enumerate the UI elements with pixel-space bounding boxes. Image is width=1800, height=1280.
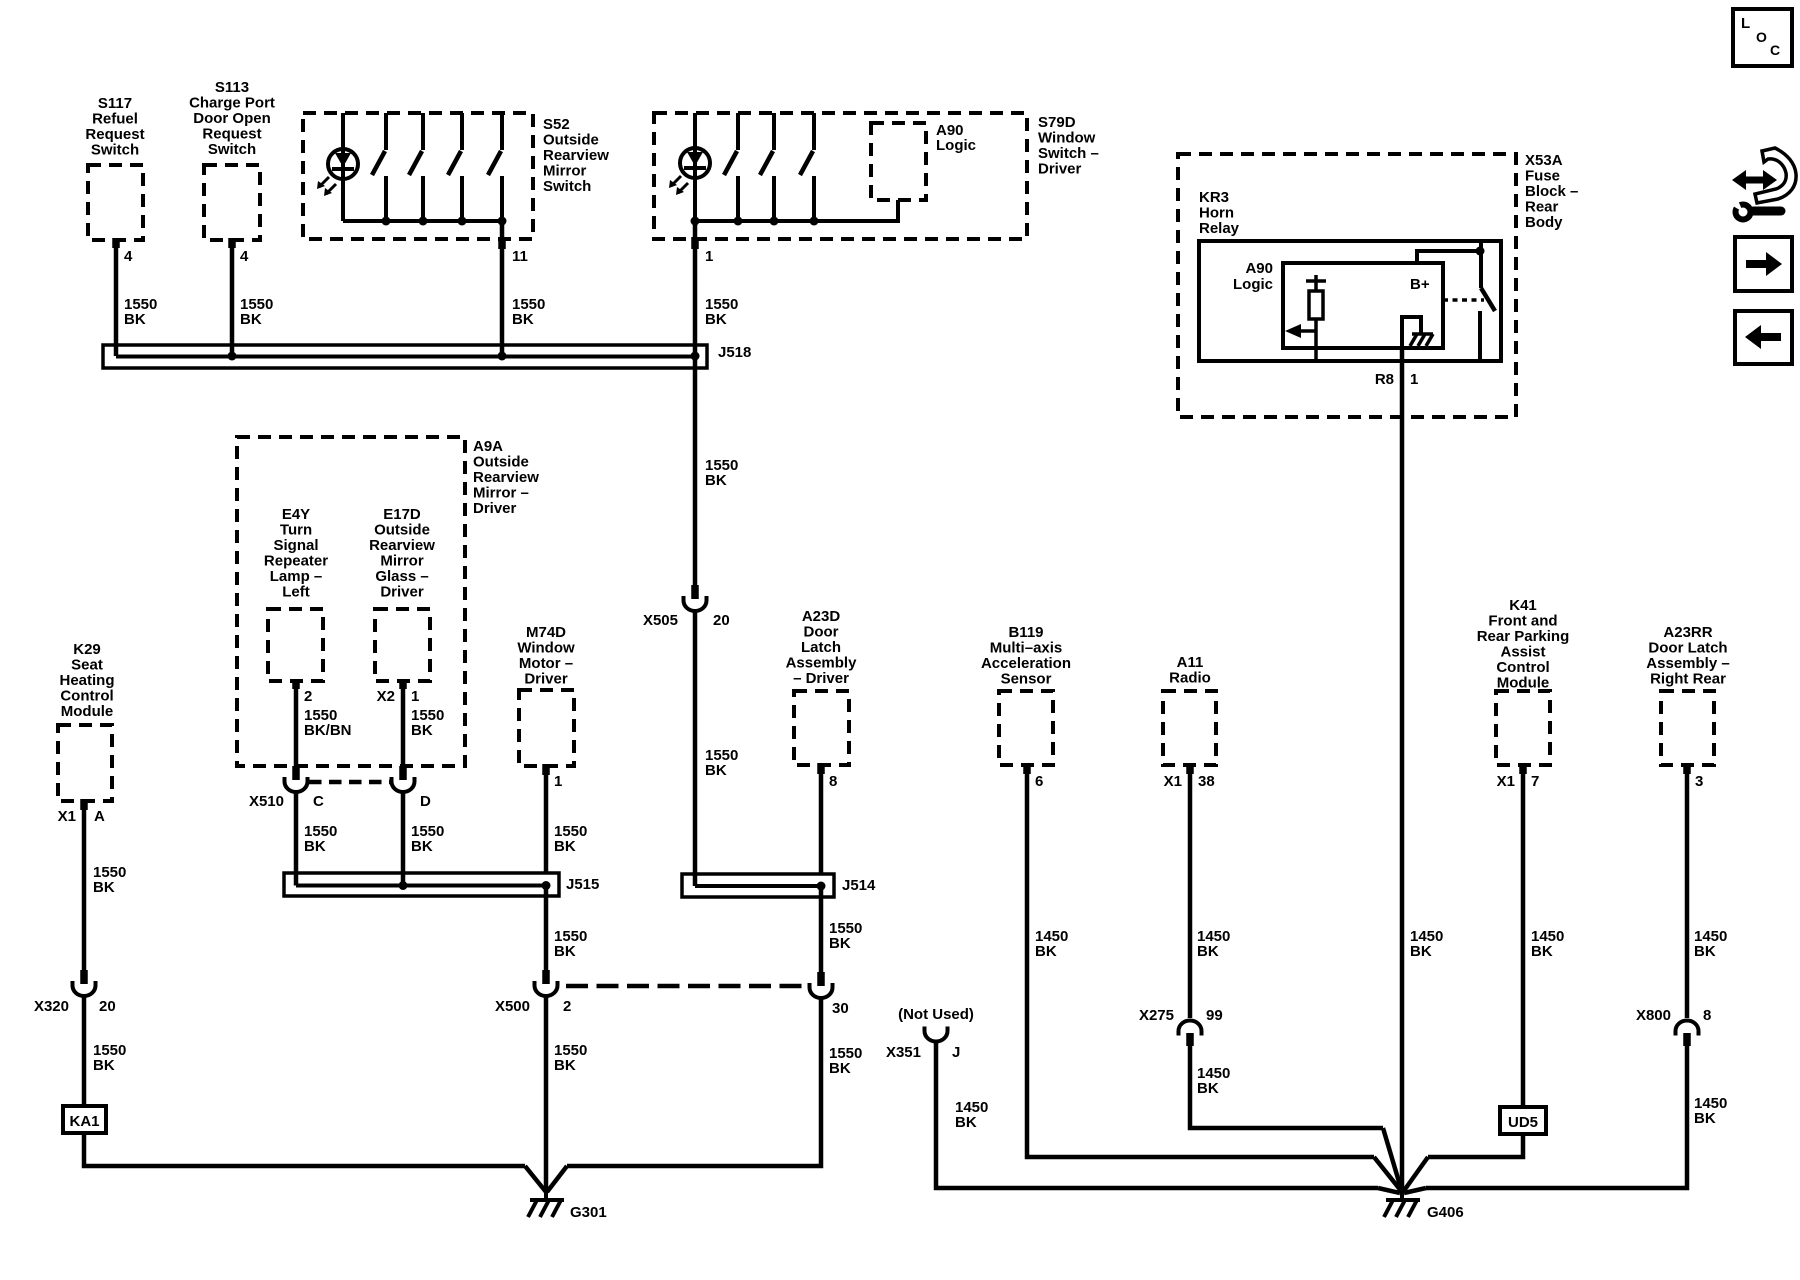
svg-text:A: A (94, 808, 105, 825)
svg-text:38: 38 (1198, 773, 1215, 790)
svg-text:BK: BK (93, 1057, 115, 1074)
svg-text:A11: A11 (1177, 654, 1204, 671)
svg-text:J515: J515 (566, 876, 599, 893)
svg-text:99: 99 (1206, 1007, 1223, 1024)
svg-text:Horn: Horn (1199, 205, 1234, 222)
svg-text:BK: BK (1035, 943, 1057, 960)
svg-text:C: C (313, 793, 324, 810)
svg-text:Window: Window (1038, 130, 1096, 147)
svg-text:A90: A90 (1245, 260, 1273, 277)
svg-text:X53A: X53A (1525, 152, 1563, 169)
svg-text:K41: K41 (1509, 597, 1537, 614)
svg-text:Switch: Switch (543, 178, 591, 195)
svg-text:BK: BK (512, 311, 534, 328)
svg-text:Logic: Logic (1233, 276, 1273, 293)
svg-text:BK: BK (1410, 943, 1432, 960)
svg-text:BK: BK (554, 943, 576, 960)
svg-text:K29: K29 (73, 641, 101, 658)
svg-text:Fuse: Fuse (1525, 168, 1560, 185)
svg-text:Driver: Driver (380, 584, 424, 601)
svg-text:S52: S52 (543, 116, 570, 133)
svg-text:X800: X800 (1636, 1007, 1671, 1024)
svg-text:KA1: KA1 (69, 1113, 99, 1130)
svg-text:Assist: Assist (1500, 644, 1545, 661)
svg-text:A23D: A23D (802, 608, 841, 625)
svg-text:BK: BK (93, 879, 115, 896)
svg-text:S79D: S79D (1038, 114, 1076, 131)
svg-text:Right Rear: Right Rear (1650, 671, 1726, 688)
svg-text:B+: B+ (1410, 276, 1430, 293)
svg-text:J514: J514 (842, 877, 876, 894)
svg-text:Control: Control (1496, 659, 1549, 676)
svg-text:2: 2 (304, 688, 312, 705)
svg-text:Front and: Front and (1488, 613, 1557, 630)
svg-text:Radio: Radio (1169, 670, 1211, 687)
svg-text:C: C (1770, 42, 1780, 58)
svg-text:BK: BK (955, 1114, 977, 1131)
svg-text:BK: BK (554, 1057, 576, 1074)
svg-text:M74D: M74D (526, 624, 566, 641)
svg-text:BK: BK (554, 838, 576, 855)
svg-text:Window: Window (517, 640, 575, 657)
svg-text:1: 1 (411, 688, 419, 705)
svg-text:Switch: Switch (208, 141, 256, 158)
svg-text:Repeater: Repeater (264, 553, 328, 570)
svg-text:6: 6 (1035, 773, 1043, 790)
svg-text:Heating: Heating (59, 672, 114, 689)
svg-text:Switch: Switch (91, 142, 139, 159)
svg-text:Module: Module (1497, 675, 1550, 692)
svg-text:Driver: Driver (1038, 161, 1082, 178)
svg-text:L: L (1741, 15, 1750, 32)
svg-text:20: 20 (99, 998, 116, 1015)
svg-text:Assembly: Assembly (786, 655, 858, 672)
svg-text:Turn: Turn (280, 522, 312, 539)
svg-text:Module: Module (61, 703, 114, 720)
svg-text:X320: X320 (34, 998, 69, 1015)
svg-text:BK: BK (705, 472, 727, 489)
svg-text:Latch: Latch (801, 639, 841, 656)
svg-text:Charge Port: Charge Port (189, 95, 275, 112)
svg-text:X500: X500 (495, 998, 530, 1015)
svg-text:2: 2 (563, 998, 571, 1015)
svg-text:BK: BK (829, 935, 851, 952)
svg-text:BK: BK (1694, 1110, 1716, 1127)
svg-text:X351: X351 (886, 1044, 921, 1061)
svg-text:Relay: Relay (1199, 220, 1240, 237)
svg-text:UD5: UD5 (1508, 1114, 1538, 1131)
svg-text:E4Y: E4Y (282, 506, 310, 523)
svg-text:Rearview: Rearview (473, 469, 539, 486)
svg-text:J518: J518 (718, 344, 751, 361)
svg-text:8: 8 (829, 773, 837, 790)
svg-text:Mirror –: Mirror – (473, 485, 529, 502)
svg-text:Multi–axis: Multi–axis (990, 640, 1063, 657)
svg-text:E17D: E17D (383, 506, 421, 523)
svg-text:B119: B119 (1008, 624, 1043, 641)
svg-text:G406: G406 (1427, 1204, 1464, 1221)
svg-text:– Driver: – Driver (793, 670, 849, 687)
svg-text:O: O (1756, 29, 1767, 45)
svg-text:7: 7 (1531, 773, 1539, 790)
svg-text:Seat: Seat (71, 657, 103, 674)
svg-text:Request: Request (85, 126, 144, 143)
svg-text:Request: Request (202, 126, 261, 143)
svg-text:BK: BK (829, 1060, 851, 1077)
svg-text:Acceleration: Acceleration (981, 655, 1071, 672)
svg-text:Logic: Logic (936, 137, 976, 154)
svg-text:BK/BN: BK/BN (304, 722, 352, 739)
svg-text:1: 1 (554, 773, 562, 790)
svg-text:A9A: A9A (473, 438, 503, 455)
svg-text:BK: BK (1197, 943, 1219, 960)
svg-text:Motor –: Motor – (519, 655, 573, 672)
svg-text:BK: BK (304, 838, 326, 855)
svg-text:Door Latch: Door Latch (1648, 640, 1727, 657)
svg-text:Glass –: Glass – (375, 568, 428, 585)
svg-text:Rear: Rear (1525, 199, 1559, 216)
svg-text:Outside: Outside (473, 454, 529, 471)
svg-text:Rearview: Rearview (369, 537, 435, 554)
svg-text:Driver: Driver (473, 500, 517, 517)
svg-text:X1: X1 (1497, 773, 1515, 790)
svg-text:Block –: Block – (1525, 183, 1578, 200)
svg-text:1: 1 (705, 248, 713, 265)
svg-text:Driver: Driver (524, 671, 568, 688)
svg-text:3: 3 (1695, 773, 1703, 790)
svg-text:Control: Control (60, 688, 113, 705)
svg-text:20: 20 (713, 612, 730, 629)
svg-text:BK: BK (1197, 1080, 1219, 1097)
svg-text:BK: BK (1694, 943, 1716, 960)
svg-text:Body: Body (1525, 214, 1563, 231)
svg-text:A23RR: A23RR (1663, 624, 1712, 641)
svg-text:30: 30 (832, 1000, 849, 1017)
svg-text:Mirror: Mirror (380, 553, 424, 570)
svg-text:Signal: Signal (273, 537, 318, 554)
svg-text:8: 8 (1703, 1007, 1711, 1024)
svg-text:11: 11 (512, 248, 528, 265)
svg-text:Switch –: Switch – (1038, 145, 1099, 162)
svg-text:Door: Door (804, 624, 839, 641)
svg-text:Refuel: Refuel (92, 111, 138, 128)
svg-text:Mirror: Mirror (543, 163, 587, 180)
svg-text:X2: X2 (377, 688, 395, 705)
svg-text:S113: S113 (215, 79, 249, 96)
svg-text:BK: BK (124, 311, 146, 328)
svg-text:Left: Left (282, 584, 310, 601)
svg-text:Assembly –: Assembly – (1646, 655, 1729, 672)
svg-text:BK: BK (411, 722, 433, 739)
svg-text:BK: BK (411, 838, 433, 855)
svg-text:X1: X1 (1164, 773, 1182, 790)
svg-text:X275: X275 (1139, 1007, 1174, 1024)
svg-text:Rear Parking: Rear Parking (1477, 628, 1570, 645)
svg-text:Outside: Outside (374, 522, 430, 539)
svg-text:BK: BK (705, 311, 727, 328)
svg-text:Door Open: Door Open (193, 110, 271, 127)
svg-text:Rearview: Rearview (543, 147, 609, 164)
svg-text:KR3: KR3 (1199, 189, 1229, 206)
svg-text:R8: R8 (1375, 371, 1394, 388)
svg-text:BK: BK (240, 311, 262, 328)
svg-text:J: J (952, 1044, 960, 1061)
svg-text:G301: G301 (570, 1204, 607, 1221)
svg-text:D: D (420, 793, 431, 810)
svg-text:Outside: Outside (543, 132, 599, 149)
svg-text:(Not Used): (Not Used) (898, 1006, 974, 1023)
svg-text:4: 4 (124, 248, 133, 265)
svg-text:Lamp –: Lamp – (270, 568, 323, 585)
svg-text:X505: X505 (643, 612, 678, 629)
svg-text:BK: BK (705, 762, 727, 779)
svg-text:X510: X510 (249, 793, 284, 810)
svg-text:4: 4 (240, 248, 249, 265)
svg-text:S117: S117 (98, 95, 132, 112)
svg-text:Sensor: Sensor (1001, 671, 1052, 688)
svg-text:1: 1 (1410, 371, 1418, 388)
svg-text:X1: X1 (58, 808, 76, 825)
svg-text:BK: BK (1531, 943, 1553, 960)
